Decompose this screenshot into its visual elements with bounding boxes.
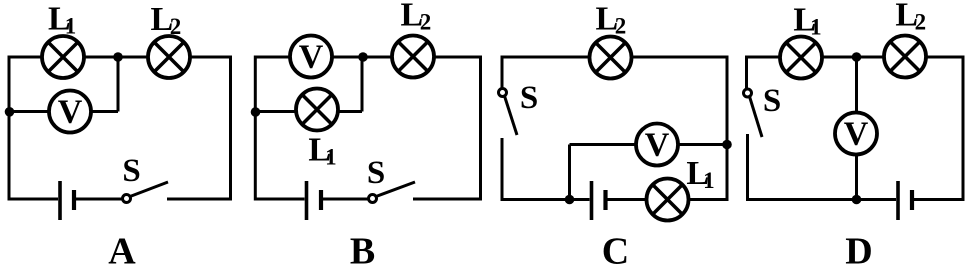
- wire B right: [479, 56, 482, 201]
- svg-text:L1: L1: [48, 1, 76, 39]
- voltmeter V (D): [835, 113, 877, 155]
- wire D voltmeter-branch: [855, 57, 858, 200]
- battery (B): [307, 181, 322, 220]
- svg-text:L2: L2: [151, 1, 182, 39]
- lamp L1 (A): [42, 36, 84, 78]
- lamp L2 (D): [884, 36, 926, 78]
- wire C bottom-left: [502, 198, 590, 201]
- wire D top: [747, 56, 964, 59]
- svg-text:S: S: [122, 153, 140, 189]
- wire C voltmeter-branch: [570, 145, 728, 200]
- voltmeter V (C): [636, 124, 678, 166]
- node A2 junction dot left: [5, 107, 15, 117]
- svg-text:A: A: [108, 231, 136, 267]
- node B2 junction dot left: [251, 107, 261, 117]
- switch S (A): [123, 182, 169, 203]
- switch S (C): [499, 89, 518, 136]
- svg-text:L1: L1: [308, 132, 336, 170]
- lamp L1 (D): [780, 37, 822, 79]
- lamp L2 (B): [392, 36, 434, 78]
- switch S (B): [369, 182, 416, 203]
- lamp L2 (A): [148, 36, 190, 78]
- svg-text:V: V: [844, 116, 869, 153]
- battery (C): [592, 181, 606, 220]
- node D1 junction dot top: [852, 52, 862, 62]
- svg-text:S: S: [367, 155, 385, 191]
- wire D left-lower: [746, 134, 749, 201]
- svg-text:S: S: [763, 83, 781, 119]
- wire C top: [502, 56, 727, 59]
- svg-text:S: S: [520, 80, 538, 116]
- svg-text:V: V: [645, 127, 670, 164]
- svg-text:L1: L1: [793, 2, 821, 40]
- battery (A): [60, 181, 74, 220]
- node D2 junction dot bottom: [852, 195, 862, 205]
- wire A bottom-mid: [76, 198, 123, 201]
- wire B bottom-mid: [323, 198, 369, 201]
- voltmeter V (A): [49, 91, 91, 133]
- battery (D): [898, 181, 912, 220]
- wire B bottom-left: [255, 198, 304, 201]
- wire D right: [962, 56, 965, 202]
- svg-text:D: D: [845, 231, 872, 267]
- wire C left-upper: [501, 56, 504, 89]
- wire D bottom-right: [914, 198, 963, 201]
- lamp L1 (B): [296, 89, 338, 131]
- svg-text:C: C: [602, 231, 629, 267]
- wire B top: [255, 56, 480, 59]
- wire C bottom-mid: [608, 198, 648, 201]
- svg-text:V: V: [58, 94, 83, 131]
- wire A bottom-left: [9, 198, 58, 201]
- svg-text:L1: L1: [686, 155, 714, 193]
- svg-text:V: V: [299, 39, 324, 76]
- wire C bottom-right: [688, 198, 727, 201]
- switch S (D): [744, 89, 763, 137]
- lamp L2 (C): [590, 37, 632, 79]
- node B1 junction dot top: [358, 52, 368, 62]
- wire C left-lower: [501, 138, 504, 201]
- wire B lamp-branch: [255, 57, 362, 112]
- node C1 junction dot bottom: [565, 195, 575, 205]
- voltmeter V (B): [290, 36, 332, 78]
- wire A right: [229, 56, 232, 201]
- wire A bottom-right: [167, 198, 231, 201]
- wire A voltmeter-branch: [9, 57, 118, 112]
- svg-text:L2: L2: [596, 1, 627, 39]
- wire C right: [726, 56, 729, 202]
- wire B left: [254, 56, 257, 201]
- svg-text:L2: L2: [401, 0, 432, 35]
- wire B bottom-right: [413, 198, 481, 201]
- node A1 junction dot top: [113, 52, 123, 62]
- lamp L1 (C): [647, 179, 689, 221]
- node C2 junction dot right: [722, 140, 732, 150]
- wire D left-upper: [745, 56, 748, 90]
- wire D bottom-left: [747, 198, 897, 201]
- svg-text:L2: L2: [895, 0, 926, 35]
- wire A top: [9, 56, 231, 59]
- svg-text:B: B: [350, 231, 375, 267]
- wire A left: [8, 56, 11, 201]
